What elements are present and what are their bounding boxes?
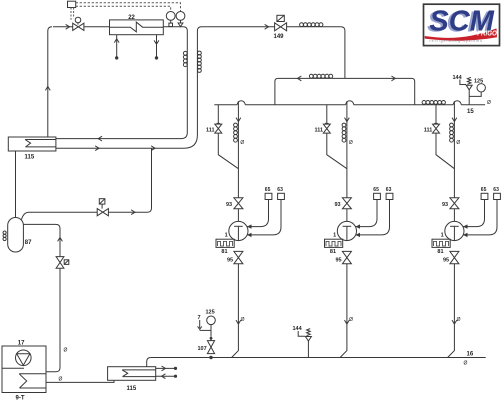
arrow into pump upper branch 1 <box>247 224 252 228</box>
branch 2 drop pipe upper <box>346 101 348 198</box>
svg-text:93: 93 <box>335 202 341 208</box>
sensor 2 tap triangle <box>178 23 183 27</box>
valve 107 hourglass <box>207 341 214 354</box>
riser from bottom tank 115 to return header <box>147 358 151 367</box>
flow arrow right on lower port line <box>95 146 99 151</box>
coil on valve 149 line <box>300 23 304 27</box>
pump triangle in 9-T <box>17 354 30 366</box>
tank 115 internal lower line <box>26 146 56 148</box>
branch 1 coil <box>234 123 238 127</box>
svg-text:93: 93 <box>226 202 232 208</box>
feed drop from valve 149 line into upper line <box>341 27 345 79</box>
coil on upper distribution line <box>309 74 313 78</box>
capillary from 63 to pump branch 2 <box>356 200 390 235</box>
branch 3 coil <box>450 123 454 127</box>
heater 81 branch 1 <box>216 239 234 247</box>
capillary from 63 to pump branch 3 <box>463 200 497 235</box>
SCM logo swoosh <box>425 28 497 40</box>
svg-text:93: 93 <box>442 202 448 208</box>
svg-text:Ø: Ø <box>464 361 468 367</box>
sensor box 65 branch 1 <box>265 193 272 199</box>
svg-text:81: 81 <box>221 249 227 255</box>
safety valve 144 top triangle <box>466 85 472 90</box>
vibration coil on riser 2 <box>198 51 202 55</box>
pump impeller T branch 3 <box>450 225 459 227</box>
valve 111 branch 2 <box>325 122 329 124</box>
sensor box 63 branch 1 <box>278 193 285 199</box>
capillary from 65 to pump branch 3 <box>463 200 485 227</box>
return pipe 2 from tank 115 lower port to valve 149 line <box>56 27 275 148</box>
sensor box 65 branch 2 <box>374 193 381 199</box>
heat exchanger 22 box <box>110 20 164 35</box>
svg-text:115: 115 <box>25 155 35 161</box>
flow arrow right before valve 149 <box>265 24 269 29</box>
valve 111 branch 3 <box>434 122 438 124</box>
svg-text:Ø: Ø <box>487 100 491 106</box>
pump impeller T branch 2 <box>343 225 352 227</box>
pipe from receiver valve up to return line tee <box>108 148 151 212</box>
branch 3 pipe valve 93 to pump <box>453 209 455 222</box>
pipe 9-T to bottom tank 115 <box>46 380 114 382</box>
safety valve 144 top spring <box>467 77 471 84</box>
dashed signal line to sensor circle left (lower) <box>76 6 171 11</box>
svg-text:65: 65 <box>265 187 271 193</box>
return header <box>151 357 486 359</box>
receiver top take-off to motorized valve <box>22 212 98 219</box>
svg-text:87: 87 <box>25 240 32 246</box>
arrow into pump upper branch 2 <box>356 224 361 228</box>
svg-text:16: 16 <box>467 351 474 357</box>
pump 1 branch 3 circle <box>445 221 464 240</box>
tank 115 internal chevron <box>25 140 31 147</box>
stub right upper with arrow and dot <box>156 367 176 369</box>
arrow into pump lower branch 2 <box>356 233 361 237</box>
flow arrow up on left riser <box>45 87 50 91</box>
capillary from 63 to pump branch 1 <box>247 200 281 235</box>
svg-text:65: 65 <box>373 187 379 193</box>
controller box (dashed signal source) <box>68 1 76 7</box>
sensor circle 1 (pressure) <box>166 12 175 21</box>
svg-text:63: 63 <box>277 187 283 193</box>
actuator square on receiver valve <box>99 199 105 204</box>
sensor box 63 branch 2 <box>386 193 393 199</box>
sensor 1 tap square <box>169 23 173 26</box>
tank 115 top box <box>8 137 56 151</box>
bottom 115 internal upper line <box>122 369 156 371</box>
branch 3 drop pipe upper <box>453 101 455 198</box>
arrow into pump upper branch 3 <box>463 224 468 228</box>
HX22 internal pipe jag <box>110 22 164 32</box>
svg-text:111: 111 <box>424 128 433 134</box>
branch 2 drop pipe lower with diagonal to return header <box>340 264 347 358</box>
branch 3 drop pipe lower with diagonal to return header <box>448 264 455 358</box>
svg-text:Ø: Ø <box>457 317 461 323</box>
svg-text:1: 1 <box>225 233 228 239</box>
HX22 water stub right with down arrow and dot <box>156 35 158 58</box>
pump 1 branch 1 circle <box>229 221 248 240</box>
branch 3 take-off arc from supply header <box>453 101 461 105</box>
thermometer probe <box>199 320 201 328</box>
svg-text:Ø: Ø <box>456 140 460 146</box>
bottom 115 internal lower line <box>123 376 156 378</box>
branch 1 drop pipe upper <box>237 101 239 198</box>
svg-text:65: 65 <box>481 187 487 193</box>
valve 111 branch 1 <box>217 122 221 124</box>
branch 2 flow arrow down lower <box>345 320 350 324</box>
branch 2 take-off arc from supply header <box>346 101 354 105</box>
stub for safety valve 144 top <box>468 90 470 105</box>
stub for safety valve 144 bottom <box>307 341 309 358</box>
receiver 87 capsule <box>8 218 24 253</box>
branch 1 bypass lower pipe and diagonal <box>218 133 238 169</box>
downcomer pipe 1 from HX22 (with corner) to tank 115 upper port <box>56 27 187 139</box>
svg-text:Ø: Ø <box>240 140 244 146</box>
flow arrow right after tee on lower port line <box>151 146 155 151</box>
heater 81 branch 3 <box>432 239 450 247</box>
svg-text:9-T: 9-T <box>16 395 25 400</box>
drop pipe from tank 115 to receiver 87 <box>15 151 17 218</box>
svg-text:1: 1 <box>441 233 444 239</box>
motorized valve top-left <box>73 23 84 30</box>
svg-text:refrigerating systems: refrigerating systems <box>430 39 484 43</box>
pipe from hand valve down to tank 9-T <box>46 268 60 372</box>
tank 115 bottom box <box>108 367 156 381</box>
safety valve 144 bottom triangle <box>305 337 311 342</box>
stub right lower with arrow and dot <box>156 375 176 377</box>
SCM Frigo logo box <box>424 4 500 45</box>
vibration coil on downcomer 1 <box>183 51 187 55</box>
thermometer connector line <box>200 329 211 331</box>
lever pipe of 144 top <box>460 80 466 85</box>
branch 2 bypass lower pipe and diagonal <box>327 133 347 169</box>
flow arrow left on upper port line <box>98 136 102 141</box>
valve 95 branch 1 <box>234 251 243 263</box>
valve 93 branch 1 <box>234 198 243 209</box>
svg-text:144: 144 <box>293 326 303 332</box>
lever pipe of 144 bottom <box>298 331 305 336</box>
branch 1 bypass tee pipe <box>217 105 219 124</box>
svg-text:15: 15 <box>467 109 474 115</box>
svg-text:149: 149 <box>274 34 285 40</box>
svg-text:95: 95 <box>227 258 233 264</box>
branch 1 flow arrow down <box>236 118 241 122</box>
supply header <box>214 104 237 106</box>
pump impeller T branch 1 <box>234 225 243 227</box>
handle square on hand valve <box>64 260 69 265</box>
flow arrow right on receiver line <box>131 210 135 215</box>
svg-text:144: 144 <box>453 75 463 81</box>
tank 9-T box <box>2 346 46 393</box>
valve 93 branch 2 <box>342 198 351 209</box>
pipe from HX22 to sensors and corner <box>163 26 183 28</box>
bottom 115 internal chevron <box>122 370 128 377</box>
coil on receiver left <box>3 231 6 234</box>
9-T internal chevron <box>19 374 27 388</box>
pump circle in 9-T <box>15 350 31 366</box>
gauge 125 bottom circle <box>207 316 216 325</box>
svg-text:17: 17 <box>18 340 25 346</box>
valve actuator head (motor) on three-way valve <box>75 17 81 23</box>
branch 1 take-off arc from supply header <box>237 101 245 105</box>
dot above valve 107 <box>210 337 213 340</box>
motorized valve on receiver line <box>97 209 108 216</box>
pump 1 branch 2 circle <box>337 221 356 240</box>
HX22 water stub left with up arrow and dot <box>116 35 118 58</box>
flow arrow right on upper line <box>391 76 395 81</box>
dashed signal pair down to valve actuator <box>70 8 72 20</box>
valve 95 branch 2 <box>342 251 351 263</box>
capillary from 65 to pump branch 2 <box>356 200 378 227</box>
dashed signal line to sensor circle right (upper) <box>76 3 181 11</box>
pipe from valve 149 to feed drop corner <box>287 26 341 28</box>
sensor circle 2 (thermostat) <box>176 12 185 21</box>
svg-text:81: 81 <box>437 249 443 255</box>
valve 95 branch 3 <box>450 251 459 263</box>
coil on supply header <box>422 101 426 105</box>
valve 149 <box>275 23 287 31</box>
flow arrow left on upper line <box>298 76 302 81</box>
tank 115 internal upper line <box>25 139 56 141</box>
svg-text:FRIGO: FRIGO <box>477 28 497 37</box>
capillary from 65 to pump branch 1 <box>247 200 269 227</box>
sensor box 65 branch 3 <box>481 193 488 199</box>
branch 3 flow arrow down <box>452 118 457 122</box>
flow arrow right before valve <box>66 24 70 29</box>
svg-text:81: 81 <box>330 249 336 255</box>
svg-text:95: 95 <box>336 258 342 264</box>
internal line under pump <box>2 367 24 369</box>
svg-text:63: 63 <box>386 187 392 193</box>
branch 2 pipe valve 93 to pump <box>346 209 348 222</box>
gauge 125 top connector <box>469 92 481 96</box>
flow arrow up to receiver <box>58 238 63 242</box>
svg-text:63: 63 <box>493 187 499 193</box>
upper distribution line <box>275 78 415 104</box>
branch 2 flow arrow down <box>345 118 350 122</box>
svg-text:111: 111 <box>315 128 324 134</box>
arrow into pump lower branch 1 <box>247 233 252 237</box>
svg-text:1: 1 <box>333 233 336 239</box>
svg-text:107: 107 <box>198 346 207 352</box>
svg-text:115: 115 <box>127 386 137 392</box>
branch 3 bypass tee pipe <box>435 105 437 124</box>
svg-text:125: 125 <box>206 310 215 316</box>
branch 1 flow arrow down lower <box>236 320 241 324</box>
left riser pipe from tank 115 up to valve <box>48 27 52 137</box>
svg-text:Ø: Ø <box>349 140 353 146</box>
hand valve below receiver <box>56 257 64 269</box>
dot junction valve 107 <box>209 356 212 359</box>
svg-text:Ø: Ø <box>64 348 68 354</box>
branch 3 bypass lower pipe and diagonal <box>436 133 454 169</box>
branch 3 flow arrow down lower <box>452 320 457 324</box>
svg-text:Ø: Ø <box>241 317 245 323</box>
wire pipe: supply from riser to valve and HX22 <box>53 26 73 28</box>
safety valve 144 bottom spring <box>307 329 311 336</box>
receiver lower take-off down to hand valve <box>23 224 60 256</box>
9-T internal heat exchanger upper line <box>19 373 46 375</box>
arrow into pump lower branch 3 <box>463 233 468 237</box>
svg-text:Ø: Ø <box>59 377 63 383</box>
svg-text:Ø: Ø <box>349 317 353 323</box>
valve 93 branch 3 <box>450 198 459 209</box>
sensor box 63 branch 3 <box>494 193 501 199</box>
heater 81 branch 2 <box>325 239 343 247</box>
gauge 125 top circle <box>477 84 485 92</box>
branch 2 coil <box>342 123 346 127</box>
branch 1 drop pipe lower with diagonal to return header <box>232 264 239 358</box>
svg-text:95: 95 <box>443 258 449 264</box>
branch 2 bypass tee pipe <box>326 105 328 124</box>
9-T internal heat exchanger lower line <box>20 387 47 389</box>
pipe valve 107 to gauge 125 <box>210 325 212 337</box>
branch 1 pipe valve 93 to pump <box>237 209 239 222</box>
svg-text:22: 22 <box>128 15 135 21</box>
svg-text:111: 111 <box>206 128 215 134</box>
solenoid square on valve 149 <box>277 15 284 21</box>
